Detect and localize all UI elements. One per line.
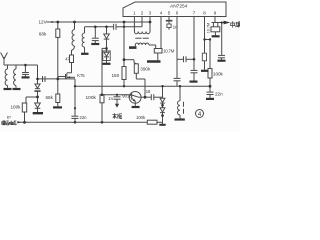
svg-text:47: 47 [65,57,70,62]
svg-text:68k: 68k [39,32,47,37]
svg-text:390k: 390k [140,66,151,71]
svg-text:1n: 1n [173,24,178,29]
svg-text:AN7254: AN7254 [170,3,188,9]
svg-text:K75: K75 [77,73,85,78]
svg-text:1n: 1n [108,96,113,101]
svg-text:12V: 12V [39,19,48,24]
svg-text:10.7M: 10.7M [163,49,175,54]
svg-text:100k: 100k [86,95,97,101]
svg-text:18: 18 [146,89,151,94]
svg-text:BT: BT [7,116,11,120]
svg-text:100k: 100k [11,105,22,110]
svg-text:100k: 100k [136,115,146,120]
svg-text:22n: 22n [215,92,223,97]
svg-text:68k: 68k [46,95,54,100]
svg-text:10.7M: 10.7M [206,23,210,34]
svg-text:22n: 22n [80,115,88,120]
svg-text:150: 150 [112,73,120,78]
svg-text:9018: 9018 [122,94,132,99]
svg-text:100k: 100k [213,71,224,76]
